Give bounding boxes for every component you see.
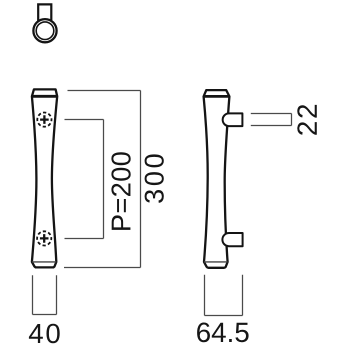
screw hole bottom cross [40, 234, 49, 243]
side view handle outline [204, 90, 230, 268]
side view top cap joint line [204, 95, 230, 98]
dimension label 40 [29, 324, 60, 344]
dimension label 22 [297, 105, 317, 135]
dimension bracket P=200 [65, 120, 104, 239]
screw hole top (dashed circle) [37, 113, 51, 127]
screw hole bottom (dashed circle) [37, 231, 51, 245]
top view inner ring [36, 22, 54, 40]
dimension bracket 40 [33, 275, 57, 314]
top view outer ring [33, 19, 56, 42]
dimension bracket 300 [64, 91, 141, 268]
dimension label P=200 [111, 152, 130, 230]
side view bottom mounting post [222, 233, 242, 246]
side view top mounting post [223, 113, 243, 126]
side view bottom cap joint line [204, 261, 228, 263]
screw hole top cross [40, 115, 49, 124]
top view mounting post rectangle [38, 4, 51, 21]
dimension bracket 22 [251, 114, 292, 126]
front view bottom cap joint line [32, 261, 56, 263]
dimension label 300 [145, 154, 164, 203]
front view top cap joint line [32, 95, 57, 98]
dimension label 64.5 [197, 323, 249, 343]
dimension bracket 64.5 [205, 275, 243, 316]
front view handle outline [32, 89, 57, 267]
